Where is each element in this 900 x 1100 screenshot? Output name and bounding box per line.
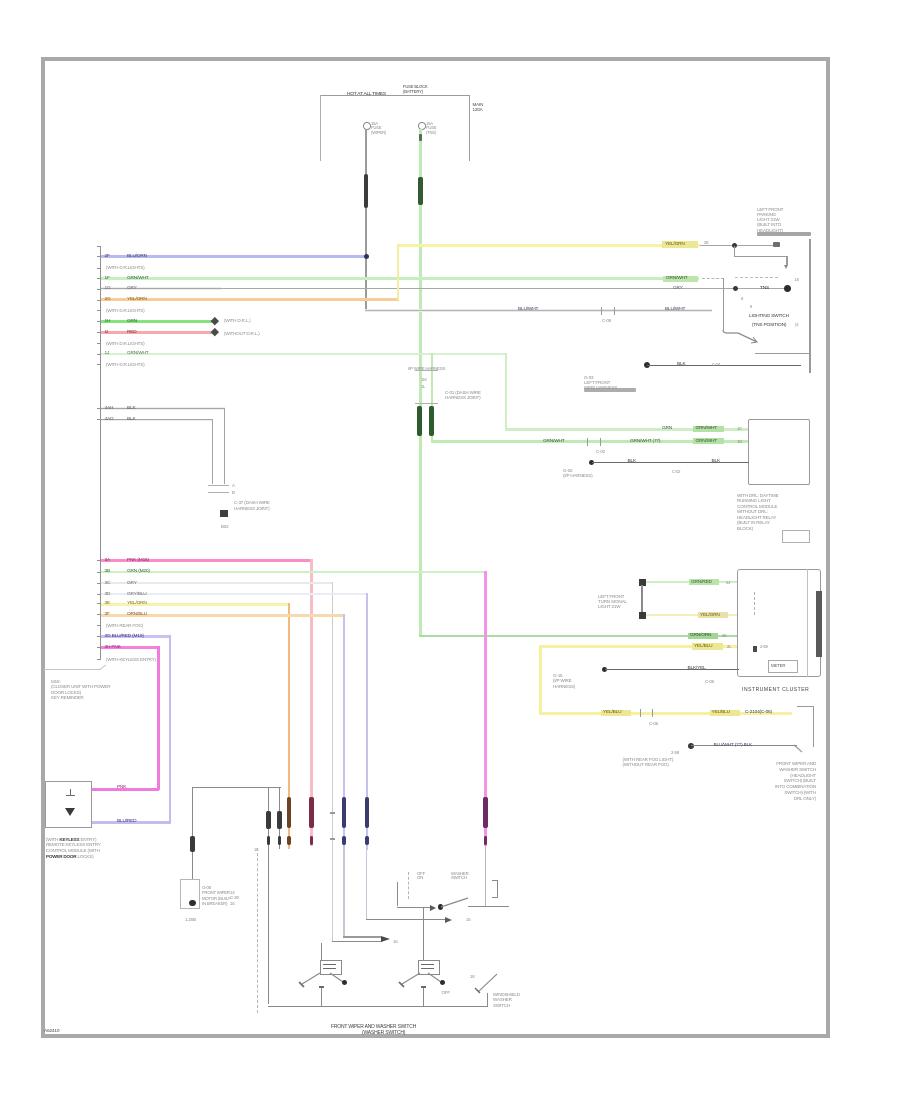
cluster dark mark at yellow pin <box>753 646 757 652</box>
U path right vertical (corner) <box>279 787 280 850</box>
wire: green branch at C-01 <box>431 353 433 443</box>
label: left front turn signal <box>598 594 627 610</box>
wire: green A to DRL box <box>505 428 749 431</box>
wire: yellow to wiper switch illum <box>539 712 792 715</box>
wire: magenta continuation to washer switch <box>485 845 486 907</box>
wire: gray vertical from fuse F1 <box>365 129 366 311</box>
connector C-01 tick lines <box>415 370 438 371</box>
connector bracket row ticks <box>97 246 101 247</box>
note row <box>106 362 144 368</box>
washer switch: feed vertical <box>397 882 398 907</box>
wire: blue vertical drop inner <box>343 614 345 850</box>
connector pin segment blue drop outer <box>365 797 369 828</box>
wire: magenta loop vertical <box>157 646 160 790</box>
washer switch: position texts <box>417 872 425 882</box>
lighting switch: lever <box>723 278 724 330</box>
connector pin segment magenta drop <box>483 797 487 828</box>
node: hot feed label (fuse block) <box>403 84 428 94</box>
lighting switch: common big dot <box>784 285 791 292</box>
wiper switch: lever with knob <box>327 972 349 988</box>
cluster internal dashes <box>754 592 755 615</box>
wire: blue vertical drop outer <box>366 593 368 850</box>
wiper switch: left unit stem up <box>321 943 322 962</box>
wire: PNK/GRN row to magenta loop <box>101 646 160 649</box>
junction: blue wire to fuse wire <box>364 254 369 259</box>
wire: left drop of feed bus <box>320 95 321 161</box>
wire: magenta vertical drop <box>484 571 487 846</box>
lighting switch: dashed travel line <box>702 278 724 279</box>
washer bus right riser <box>487 993 488 1007</box>
washer switch: pivot dot <box>438 904 443 909</box>
turn signal light: body line <box>641 585 642 612</box>
wire terminal mark yellow end <box>773 242 781 247</box>
bottom right switch corner <box>797 706 814 707</box>
wiper switch: left unit body <box>320 960 342 975</box>
wire: BLK/WHT band from fuse drop to switch <box>365 309 712 312</box>
wire: pale yellow from turn signal to cluster <box>646 614 737 617</box>
left connector bracket <box>100 246 101 660</box>
right unit stem down <box>423 987 424 1007</box>
washer switch: bracket <box>497 880 498 898</box>
junction on yellow wire <box>732 243 737 248</box>
wire: gray to bottom right switch <box>688 743 694 749</box>
wire: blue drop outer turn right with arrow <box>366 919 446 920</box>
contact arrowhead <box>784 265 788 269</box>
label: DRL module block <box>737 493 778 532</box>
wire: C-37 row 2 <box>101 419 213 422</box>
wire: GRN row to magenta drop <box>101 571 487 574</box>
wire: GRY/BLU row <box>101 593 367 596</box>
note row <box>106 623 143 629</box>
wire: C-37 vertical outer <box>224 408 225 485</box>
wire: BLU/RED row to violet drop <box>101 635 171 638</box>
wire: BLU/ORN row to fuse wire <box>101 255 367 258</box>
wiper switch: right arm <box>396 972 422 990</box>
wiper switch: right lever with knob <box>425 972 447 988</box>
label: instrument cluster <box>742 688 809 694</box>
wire: yellow cluster loop horizontal <box>539 645 737 648</box>
label: keyless unit note <box>46 837 101 860</box>
fuse F1 (wiper) <box>363 122 371 130</box>
mechanical link dashed line <box>257 848 258 1013</box>
wire: faint gray vertical drop <box>332 582 333 942</box>
dark text on common wire <box>760 286 769 292</box>
diamond terminator red row <box>211 328 219 336</box>
turn signal light: top square <box>639 579 646 586</box>
connector pin segment <box>266 811 270 829</box>
note row <box>106 265 144 271</box>
wire: right drop of feed bus <box>469 95 470 161</box>
connector ticks gray drop <box>330 812 335 814</box>
connector pin segment green main <box>417 406 422 436</box>
wiper switch: right unit body <box>418 960 440 975</box>
label: left front ground <box>584 375 617 391</box>
washer switch: contact line <box>468 906 509 907</box>
small connector box above cluster <box>782 530 810 543</box>
wire: YEL row <box>101 603 290 606</box>
connector mark C-09 on band <box>601 307 602 315</box>
wire: RED short row with continuation diamond <box>101 331 212 334</box>
wire: green TNS to cluster (from fuse riser) <box>419 635 737 638</box>
connector C-01 label <box>445 390 481 401</box>
labels on green A <box>662 426 672 432</box>
connector pin segment orange drop <box>287 797 291 828</box>
washer lever right <box>474 971 500 994</box>
diamond terminator green row <box>211 317 219 325</box>
wiper switch: stem down <box>321 987 322 1007</box>
label: ground G <box>563 468 592 479</box>
labels on green B <box>543 439 565 445</box>
label chunk YEL/GRN <box>662 241 698 248</box>
wire: green B to DRL box <box>431 440 750 443</box>
label: lighting switch <box>749 314 789 320</box>
U path mid vertical to bottom bus <box>268 787 269 1005</box>
label: cluster ground <box>553 673 575 689</box>
wire: PNK row <box>101 559 312 562</box>
washer switch: lever <box>440 895 470 909</box>
wire: gray+blue drops turn right with arrow <box>343 936 381 937</box>
wiper switch: left arm <box>296 972 322 990</box>
bracket line under connector column <box>44 669 101 670</box>
intermittent relay box <box>180 879 200 909</box>
note row <box>106 308 144 314</box>
wire: C-37 vertical inner <box>212 419 213 484</box>
label: front wiper washer switch caption <box>331 1025 416 1031</box>
ground: DRL BLK wire <box>589 460 595 466</box>
connector pin segment on F2 wire <box>418 177 423 205</box>
instrument cluster box <box>737 569 822 677</box>
lighting switch: contact drop from yellow junction <box>734 246 735 257</box>
note row <box>106 657 156 663</box>
DRL module box <box>748 419 810 485</box>
label chunk GRN near switch <box>663 276 698 282</box>
wire: C-37 row 1 <box>101 407 225 410</box>
wire: yellow vertical riser <box>397 244 399 301</box>
wire: green branch corner at x506 <box>505 353 507 431</box>
wire: GRN short row with continuation diamond <box>101 320 212 323</box>
wire: yellow loop vertical <box>539 645 542 713</box>
wire: magenta loop horizontal <box>91 788 159 791</box>
small box inside cluster bottom <box>768 660 798 673</box>
wire: green vertical from fuse F2 <box>419 129 421 636</box>
dot inside relay box <box>189 900 196 907</box>
connector C-37 ticks <box>208 485 229 486</box>
bottom return bus <box>268 1006 488 1007</box>
keyless control unit box <box>45 781 92 828</box>
right unit stem up to washer line <box>423 908 424 961</box>
cluster right dark bar <box>816 591 821 657</box>
connector C-37 label <box>234 500 270 511</box>
fuse F2 (tns) <box>418 122 426 130</box>
wire: top feed bus <box>320 95 470 96</box>
label: left front park light block <box>757 207 783 233</box>
U path left vertical <box>192 787 193 880</box>
label: battery fuse <box>473 102 484 113</box>
lighting switch: box right edge <box>809 239 810 373</box>
cluster inner divider <box>807 569 808 677</box>
wire: ORN row <box>101 614 345 617</box>
connector pin segment <box>277 811 281 829</box>
terminal mark inside box <box>70 789 71 796</box>
connector pin segment on F1 wire <box>364 174 369 208</box>
wire: ORN row <box>101 298 399 301</box>
connector pin segment green branch <box>429 406 434 436</box>
washer switch: dashed wafer line <box>408 872 409 899</box>
wire: pale GRN long row <box>101 353 507 356</box>
washer switch: horizontal with arrow <box>397 907 431 908</box>
wire: pink vertical drop <box>310 559 313 846</box>
connector pin segment pink drop <box>309 797 313 828</box>
wire: GRN row (to lighting switch) <box>101 277 699 280</box>
ground: cluster BLK wire <box>602 667 608 673</box>
node: hot-at-all-times label <box>347 92 386 98</box>
connector pin segment on U left <box>190 836 195 852</box>
label: windshield washer switch <box>493 992 520 1009</box>
diagram id <box>44 1029 59 1035</box>
small dark mark below fuse F2 <box>419 134 423 141</box>
diode arrow inside box <box>65 808 75 816</box>
connector pin segment blue drop inner <box>342 797 346 828</box>
wire: violet vertical drop <box>169 635 172 824</box>
label: relay box <box>202 885 231 907</box>
label: headlight switch block <box>700 761 816 802</box>
wire: yellow feed to park lights <box>397 244 700 247</box>
wire: GRY row (to lighting switch common) <box>101 287 221 290</box>
lighting switch: junction dot on gray <box>733 286 738 291</box>
connector C-37 square <box>220 510 228 518</box>
label: C-30 connector <box>230 890 239 907</box>
turn signal light: bottom square <box>639 612 646 619</box>
wire: violet loop horizontal <box>91 821 171 824</box>
wire: GRY row <box>101 582 333 585</box>
border frame <box>41 57 830 1038</box>
lighting switch: base line <box>755 353 811 354</box>
note row <box>106 341 144 347</box>
wire: orange vertical drop <box>288 603 291 849</box>
wire: green from turn signal to cluster <box>646 581 737 584</box>
label: keyless block note <box>51 679 110 701</box>
ground: lighting switch BLK wire <box>644 362 650 368</box>
wiper return U path: top horizontal <box>192 787 281 788</box>
